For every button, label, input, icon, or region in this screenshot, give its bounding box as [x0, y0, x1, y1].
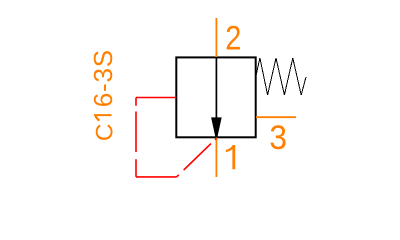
wire: internal flow line	[215, 57, 217, 119]
wire: pilot line segment B (dashed vertical)	[135, 98, 137, 177]
svg-text:2: 2	[225, 18, 241, 57]
wire: pilot line segment D (dashed diagonal to port 1)	[177, 138, 217, 177]
wire: port 1 line	[215, 138, 217, 178]
svg-text:3: 3	[269, 119, 287, 158]
wire: port 2 line	[215, 18, 217, 57]
wire: pilot line segment C (solid bottom)	[136, 176, 177, 178]
wire: port 3 line	[256, 116, 296, 118]
flow arrowhead	[211, 117, 222, 137]
svg-text:6-3S: 6-3S	[88, 49, 118, 107]
wire: pilot line segment A (solid, from valve left edge)	[136, 97, 176, 99]
valve body rectangle	[176, 57, 255, 137]
component label digit 1 (custom, no foot serif)	[94, 114, 112, 121]
svg-text:C: C	[91, 124, 118, 142]
spring	[256, 58, 306, 95]
port label 1	[226, 145, 235, 169]
